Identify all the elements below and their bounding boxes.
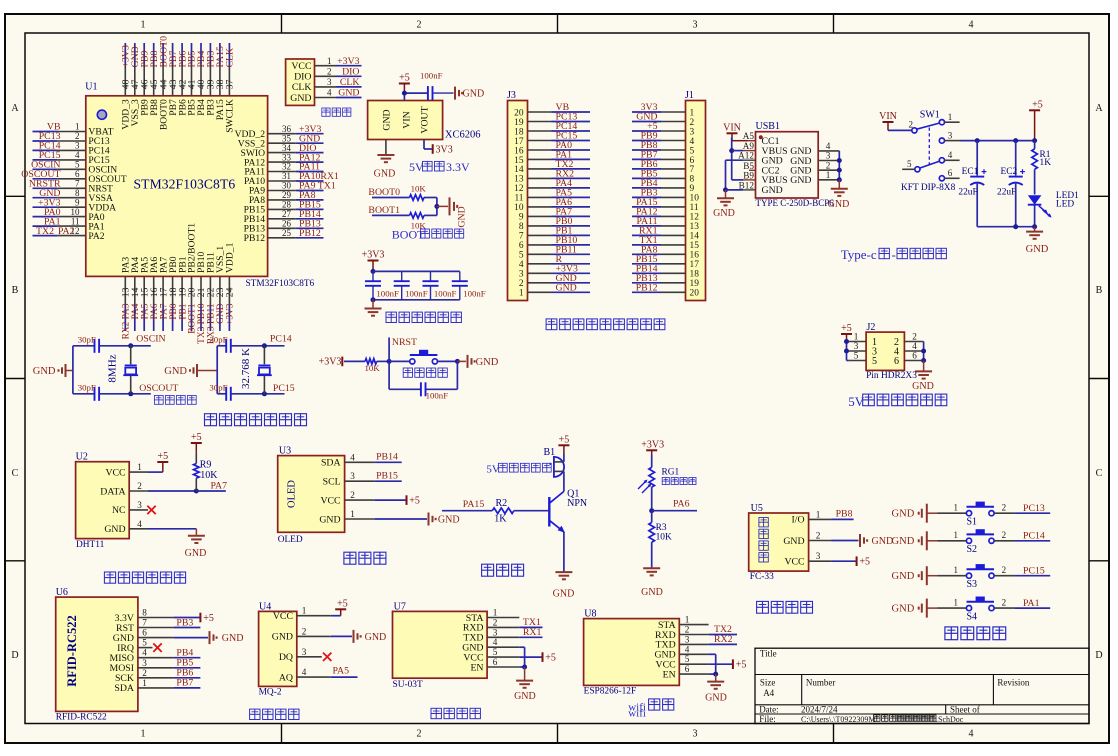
J1 pin 11 net PA15 (632, 197, 699, 213)
power port +5 U4 (335, 598, 348, 615)
J1 pin 17 net PB15 (632, 254, 699, 270)
svg-text:PB8: PB8 (836, 509, 853, 520)
U6 pin 7 RST (116, 618, 174, 634)
svg-text:12: 12 (690, 213, 700, 223)
svg-text:30pF: 30pF (78, 334, 96, 344)
wire U5 IO (831, 518, 854, 520)
crystal Y2 32.768K wire left vertical (216, 346, 218, 394)
U6 IRQ no-connect (153, 643, 161, 652)
wire Q1 emitter down (563, 532, 565, 572)
J2 designator (867, 322, 876, 333)
svg-text:3: 3 (350, 471, 355, 481)
svg-text:5: 5 (854, 351, 859, 361)
svg-text:6: 6 (912, 351, 917, 361)
crystal Y1 8MHz label 30pF top (78, 334, 96, 344)
svg-text:1: 1 (142, 678, 147, 688)
svg-text:7: 7 (142, 618, 147, 628)
J1 pin 13 net PA11 (632, 216, 699, 232)
U1 left pin 8 VSSA wire+net (33, 188, 113, 204)
S1 pin1 number (954, 503, 959, 513)
button reset (410, 350, 438, 364)
USB1 left pin A9 VBUS (743, 141, 788, 157)
svg-text:TYPE C-250D-BCP6: TYPE C-250D-BCP6 (756, 198, 835, 208)
svg-text:2: 2 (417, 20, 422, 31)
U2 pin 2 DATA (100, 481, 148, 497)
svg-text:11: 11 (514, 194, 523, 204)
U4 DQ no-connect (323, 653, 331, 661)
USB1 left pin A5 CC1 (743, 131, 780, 147)
wire BOOT1 (372, 214, 410, 216)
svg-text:R2: R2 (496, 498, 508, 509)
SW1 pin1 line (945, 121, 960, 123)
svg-text:SWCLK: SWCLK (225, 99, 236, 133)
crystal Y1 8MHz wire left vertical (72, 346, 74, 394)
wire SCL net (374, 480, 402, 482)
U2 NC no-connect (147, 506, 155, 514)
S2 designator (967, 544, 978, 555)
R1 designator (1040, 150, 1051, 160)
svg-text:U8: U8 (584, 608, 596, 619)
svg-text:30pF: 30pF (78, 382, 96, 392)
label crystal circuit (154, 396, 196, 405)
U6 pin 3 MOSI (110, 658, 174, 674)
wire S1 to net (994, 512, 1050, 514)
svg-text:-: - (892, 247, 896, 262)
svg-text:GND: GND (33, 366, 56, 377)
J2 right pin 6 (894, 351, 924, 367)
ground (side) U5 (860, 534, 893, 547)
wire gnd to S3 (937, 575, 966, 577)
crystal Y1 8MHz capacitor 30pF bottom (95, 387, 100, 401)
svg-text:3: 3 (137, 500, 142, 510)
U1 left pin 6 OSCOUT wire+net (21, 169, 127, 185)
label wifi module (628, 699, 674, 714)
wire R3 to gnd (651, 542, 653, 568)
label display screen (344, 552, 386, 564)
crystal Y2 32.768K net label top PC14 (270, 334, 292, 345)
J2 left pin 1 (849, 332, 877, 348)
J3 pin 11 net PA5 (514, 188, 590, 204)
U2 pin 4 GND (104, 519, 148, 535)
S2 pin1 number (954, 530, 959, 540)
svg-text:S1: S1 (967, 516, 978, 527)
J1 pin 12 net PA12 (632, 207, 699, 223)
regulator XC6206 body (368, 101, 443, 140)
wire SDA net (374, 461, 402, 463)
J3 pin 14 net TX2 (514, 159, 590, 175)
svg-text:3: 3 (142, 658, 147, 668)
svg-text:GND: GND (381, 109, 392, 130)
svg-text:18: 18 (514, 127, 524, 137)
wire reset bottom loop (389, 361, 457, 389)
wire U4 AQ (331, 676, 358, 678)
U3 pin group label OLED (287, 480, 298, 508)
wire +3V3 to R (344, 360, 365, 362)
svg-text:2: 2 (826, 160, 831, 170)
svg-text:1: 1 (75, 122, 80, 132)
svg-text:3.3V: 3.3V (446, 160, 470, 174)
ground (side) at S4 (892, 599, 938, 618)
svg-text:9: 9 (690, 184, 695, 194)
svg-text:PA2: PA2 (58, 226, 75, 237)
J1 pin 9 net PB4 (632, 178, 695, 194)
wire gnd to S4 (937, 607, 966, 609)
svg-text:+3V3: +3V3 (641, 439, 664, 450)
junction rail EC1 (975, 138, 980, 143)
svg-text:GND: GND (641, 587, 663, 598)
power port +5 U7 (543, 652, 556, 663)
capacitor 100nF reset (421, 382, 426, 396)
svg-text:U5: U5 (751, 503, 763, 514)
svg-text:1: 1 (826, 170, 831, 180)
resistor 10K (BOOT0) (410, 195, 425, 201)
crystal Y2 32.768K wire bottom to cap (217, 393, 226, 395)
label Type-c power circuit (841, 247, 947, 262)
U5 vertical label (759, 518, 768, 563)
svg-text:10K: 10K (656, 533, 672, 543)
label xiazaikou (download port) (322, 108, 351, 116)
svg-text:5: 5 (75, 160, 80, 170)
svg-text:+3V3: +3V3 (337, 56, 359, 67)
wire NRST up (388, 337, 390, 361)
svg-text:30pF: 30pF (209, 382, 227, 392)
power port 3V3 at VOUT (433, 144, 453, 155)
net label NRST (392, 337, 417, 348)
svg-text:GND: GND (828, 199, 850, 210)
svg-text:5: 5 (690, 146, 695, 156)
label 5V active buzzer (486, 463, 551, 475)
label 5V buck 3.3V (409, 160, 470, 174)
U7 comment SU-03T (393, 680, 423, 690)
U2 comment DHT11 (76, 540, 105, 550)
power port +5 OLED (407, 495, 420, 506)
U2 designator (76, 451, 88, 462)
U8 pin 6 EN (663, 664, 709, 680)
resistor R3 10K (649, 523, 655, 543)
svg-text:1: 1 (350, 509, 355, 519)
capacitor 100nF filter 4 (452, 271, 486, 299)
ground (side) at S3 (892, 566, 938, 585)
U1 right pin 30 PA9 wire+net (249, 181, 336, 197)
U1 top pin 42 PB6 wire+net (177, 43, 188, 116)
crystal Y1 8MHz junction bottom (128, 391, 133, 396)
svg-text:BOOT1: BOOT1 (188, 303, 198, 334)
SW1 pin5 number (907, 159, 912, 169)
svg-text:DQ: DQ (279, 652, 293, 663)
U1 top pin 47 VSS_3 wire+net (130, 43, 141, 126)
crystal Y2 32.768K net label bottom PC15 (273, 383, 295, 394)
svg-text:B12: B12 (739, 180, 755, 190)
svg-text:C:\Users\.\T0922309M: C:\Users\.\T0922309M (801, 715, 875, 724)
EC1 designator (962, 167, 979, 177)
svg-text:+5: +5 (559, 434, 570, 445)
svg-text:5V: 5V (409, 160, 424, 174)
svg-text:2: 2 (909, 120, 914, 130)
svg-text:10: 10 (71, 207, 81, 217)
svg-text:27: 27 (282, 209, 292, 219)
U1 right pin 28 PB15 wire+net (244, 200, 324, 216)
S3 pin1 number (954, 565, 959, 575)
wire VOUT to 3V3 (424, 140, 433, 150)
svg-text:3: 3 (693, 729, 698, 740)
wire U8 TXD (709, 643, 737, 645)
U4 pin 1 VCC (273, 606, 331, 622)
U1 left pin 3 PC14 wire+net (33, 141, 110, 157)
U7 pin 6 EN (470, 657, 519, 673)
U7 pin 5 VCC (463, 647, 519, 663)
J3 pin 10 net PA6 (514, 197, 590, 213)
svg-text:+5: +5 (203, 613, 214, 624)
crystal Y1 8MHz wire cap to junction bottom (99, 393, 151, 395)
J3 pin 8 net PB0 (519, 216, 590, 232)
gnd stub reset (457, 360, 466, 362)
U1 designator (85, 82, 97, 93)
wire BOOT node vertical (436, 198, 438, 216)
R3 value 10K (656, 533, 672, 543)
SW1 lever 5-4 (920, 161, 940, 168)
svg-text:3V3: 3V3 (436, 144, 453, 155)
title block texts (759, 648, 1030, 723)
label 10K bottom (411, 221, 427, 231)
junction DATA-R9 (194, 489, 199, 494)
crystal Y2 32.768K ground (side) (164, 364, 217, 377)
wire S2 to net (994, 540, 1050, 542)
label wifi (628, 707, 646, 719)
wire U8 GND elbow (709, 654, 716, 674)
label photoresistor (662, 478, 696, 485)
svg-text:34: 34 (282, 143, 292, 153)
svg-text:STM32F103C8T6: STM32F103C8T6 (246, 279, 315, 289)
junction bottom EC2 (1013, 224, 1018, 229)
svg-text:EN: EN (663, 669, 676, 680)
svg-text:2024/7/24: 2024/7/24 (801, 705, 838, 715)
svg-text:1K: 1K (1040, 158, 1052, 168)
power port +5 U8 (733, 659, 746, 670)
svg-text:22uF: 22uF (997, 187, 1016, 197)
svg-text:GND: GND (164, 366, 187, 377)
J3 pin 7 net PB1 (519, 226, 590, 242)
svg-text:1: 1 (954, 503, 959, 513)
U1 bottom pin 15 PA5 wire+net (139, 257, 150, 331)
svg-text:2: 2 (327, 67, 332, 77)
download port pin 2 DIO (294, 67, 361, 83)
svg-text:7: 7 (690, 165, 695, 175)
svg-text:PB15: PB15 (376, 471, 398, 482)
svg-text:19: 19 (514, 118, 524, 128)
svg-text:GND: GND (892, 536, 915, 547)
wire VIN vertical to VBUS pins (731, 138, 733, 180)
svg-text:6: 6 (894, 356, 899, 367)
wire VIN to A5 (732, 133, 748, 140)
svg-text:1: 1 (954, 565, 959, 575)
U5 designator (751, 503, 763, 514)
label smoke detection (250, 709, 299, 719)
svg-text:S4: S4 (967, 611, 978, 622)
svg-text:VCC: VCC (320, 495, 340, 506)
crystal Y2 32.768K junction bottom (262, 391, 267, 396)
resistor 10K reset (365, 359, 377, 365)
wire node to R3 (651, 511, 653, 523)
wire USB right bus (838, 151, 840, 180)
wire R to node (377, 360, 389, 362)
gnd stem J2 (923, 361, 925, 372)
svg-text:+5: +5 (859, 557, 870, 568)
svg-text:4: 4 (327, 88, 332, 98)
svg-text:BOOT1: BOOT1 (368, 205, 400, 216)
U1 left pin 11 PA1 wire+net (33, 216, 105, 232)
svg-text:Pin HDR2X3: Pin HDR2X3 (866, 371, 917, 381)
U1 bottom pin 18 PB0 wire+net (168, 256, 179, 331)
switch SW1 pin1 circle (939, 120, 944, 125)
LED1 value LED (1056, 199, 1074, 209)
svg-text:GND: GND (185, 548, 207, 559)
junction reset node2 (455, 359, 460, 364)
SW1 pin4 number (948, 150, 953, 160)
U7 pin 2 RXD (463, 617, 519, 633)
svg-text:100nF: 100nF (426, 390, 449, 400)
U3 comment OLED (278, 535, 303, 545)
net label PB6 (176, 668, 193, 679)
wire U6 pin 3 (174, 667, 201, 669)
svg-text:GND: GND (438, 514, 460, 525)
XC6206 comment (445, 130, 481, 141)
svg-text:4: 4 (519, 260, 524, 270)
U4 comment MQ-2 (259, 688, 282, 698)
svg-text:CLK: CLK (225, 48, 236, 68)
download port connector body (286, 59, 315, 105)
svg-text:14: 14 (690, 232, 700, 242)
U1 right pin 35 VSS_2 wire+net (238, 133, 324, 149)
crystal Y1 8MHz junction top (128, 343, 133, 348)
svg-text:12: 12 (514, 184, 524, 194)
svg-text:A: A (11, 103, 19, 114)
svg-text:6: 6 (948, 168, 953, 178)
svg-text:GND: GND (463, 89, 485, 100)
crystal Y1 8MHz capacitor 30pF top (95, 339, 100, 353)
U4 pin 3 DQ (279, 647, 322, 663)
junction BOOT node (434, 204, 439, 209)
svg-text:31: 31 (282, 171, 291, 181)
svg-text:D: D (11, 650, 18, 661)
label independent keys (945, 627, 1006, 640)
U1 bottom pin 21 PB10 wire+net (196, 251, 207, 343)
ground symbol filter caps (365, 309, 382, 316)
svg-text:File:: File: (759, 714, 776, 724)
U1 bottom pin 22 PB11 wire+net (206, 252, 217, 344)
svg-text:100nF: 100nF (420, 71, 443, 81)
svg-text:VIN: VIN (402, 111, 413, 128)
svg-text:PB7: PB7 (176, 678, 193, 689)
S2 pin2 number (1002, 530, 1007, 540)
svg-text:GND: GND (892, 509, 915, 520)
svg-text:MQ-2: MQ-2 (259, 688, 282, 698)
U1 right pin 29 PA8 wire+net (249, 190, 324, 206)
svg-text:GND: GND (1026, 244, 1049, 255)
crystal Y2 32.768K crystal value (240, 348, 252, 389)
net label PB5 (176, 658, 193, 669)
U1 pin-1 marker circle (97, 110, 106, 119)
capacitor EC2 22uF (1009, 169, 1025, 185)
U1 left pin 4 PC15 wire+net (33, 150, 110, 166)
S4 designator (967, 611, 978, 622)
S1 designator (967, 516, 978, 527)
power port +5 U6 (200, 613, 213, 624)
IC U5 FC-33 body (749, 513, 809, 571)
crystal Y1 8MHz wire top to cap (73, 345, 95, 347)
button S2 (966, 529, 994, 543)
svg-text:PA5: PA5 (140, 303, 150, 319)
U5 pin 3 VCC (784, 551, 831, 567)
gnd stem filter (372, 300, 374, 308)
U8 comment ESP8266-12F (584, 686, 637, 696)
svg-text:RFID-RC522: RFID-RC522 (65, 615, 79, 687)
U6 pin 8 3.3V (115, 608, 174, 624)
junction bottom LED (1032, 224, 1037, 229)
wire VIN node (404, 93, 428, 100)
svg-text:GND: GND (216, 303, 226, 324)
svg-text:3: 3 (302, 647, 307, 657)
USB1 left pin B9 VBUS (743, 170, 788, 186)
svg-text:RX1: RX1 (523, 627, 542, 638)
J1 pin 15 net TX1 (632, 235, 699, 251)
svg-text:KFT DIP-8X8: KFT DIP-8X8 (901, 183, 956, 193)
svg-text:100nF: 100nF (463, 289, 486, 299)
J2 left pin 3 (849, 341, 877, 357)
crystal Y1 8MHz crystal value (107, 354, 119, 382)
ground (side) reset (468, 355, 499, 368)
J3 pin 15 net PA1 (514, 150, 590, 166)
power port +5 R9 (191, 432, 202, 453)
junction USB right 2 (837, 168, 842, 173)
button S3 (966, 564, 994, 578)
label 5V external backup power (848, 394, 947, 409)
svg-text:XC6206: XC6206 (445, 130, 481, 141)
svg-text:R3: R3 (656, 523, 667, 533)
svg-text:+5: +5 (409, 496, 420, 507)
svg-text:24: 24 (225, 287, 236, 297)
USB1 right pin 2 GND (790, 160, 839, 176)
wire R1 to LED1 (1034, 169, 1036, 194)
net label TX1 (523, 617, 541, 628)
svg-text:3: 3 (327, 77, 332, 87)
wire U7 RXD (519, 626, 542, 628)
gnd stem U8 (715, 674, 717, 681)
svg-text:U3: U3 (279, 445, 291, 456)
gnd stem power (1034, 227, 1036, 232)
svg-text:PA7: PA7 (211, 480, 228, 491)
svg-text:PA2: PA2 (88, 231, 104, 242)
wire A12 elbow (726, 160, 744, 190)
gnd stem USB left (725, 190, 727, 198)
LED LED1 (1028, 195, 1052, 217)
svg-text:2: 2 (350, 490, 355, 500)
U6 part label RFID-RC522 (65, 615, 79, 687)
wire button to node2 (438, 360, 458, 362)
gnd stem U7 (524, 667, 526, 680)
svg-text:29: 29 (282, 190, 292, 200)
U7 designator (394, 601, 406, 612)
U1 top pin 37 SWCLK wire+net (225, 43, 236, 133)
U6 comment RFID-RC522 (56, 713, 107, 723)
wire BOOT1 res to node (424, 214, 437, 216)
connector J2 body (866, 332, 904, 370)
J3 pin 1 net GND (519, 283, 590, 299)
J1 pin 2 net GND (632, 112, 695, 128)
svg-text:5: 5 (907, 159, 912, 169)
svg-text:+5: +5 (736, 660, 747, 671)
svg-text:10K: 10K (365, 363, 381, 373)
svg-text:3: 3 (816, 551, 821, 561)
